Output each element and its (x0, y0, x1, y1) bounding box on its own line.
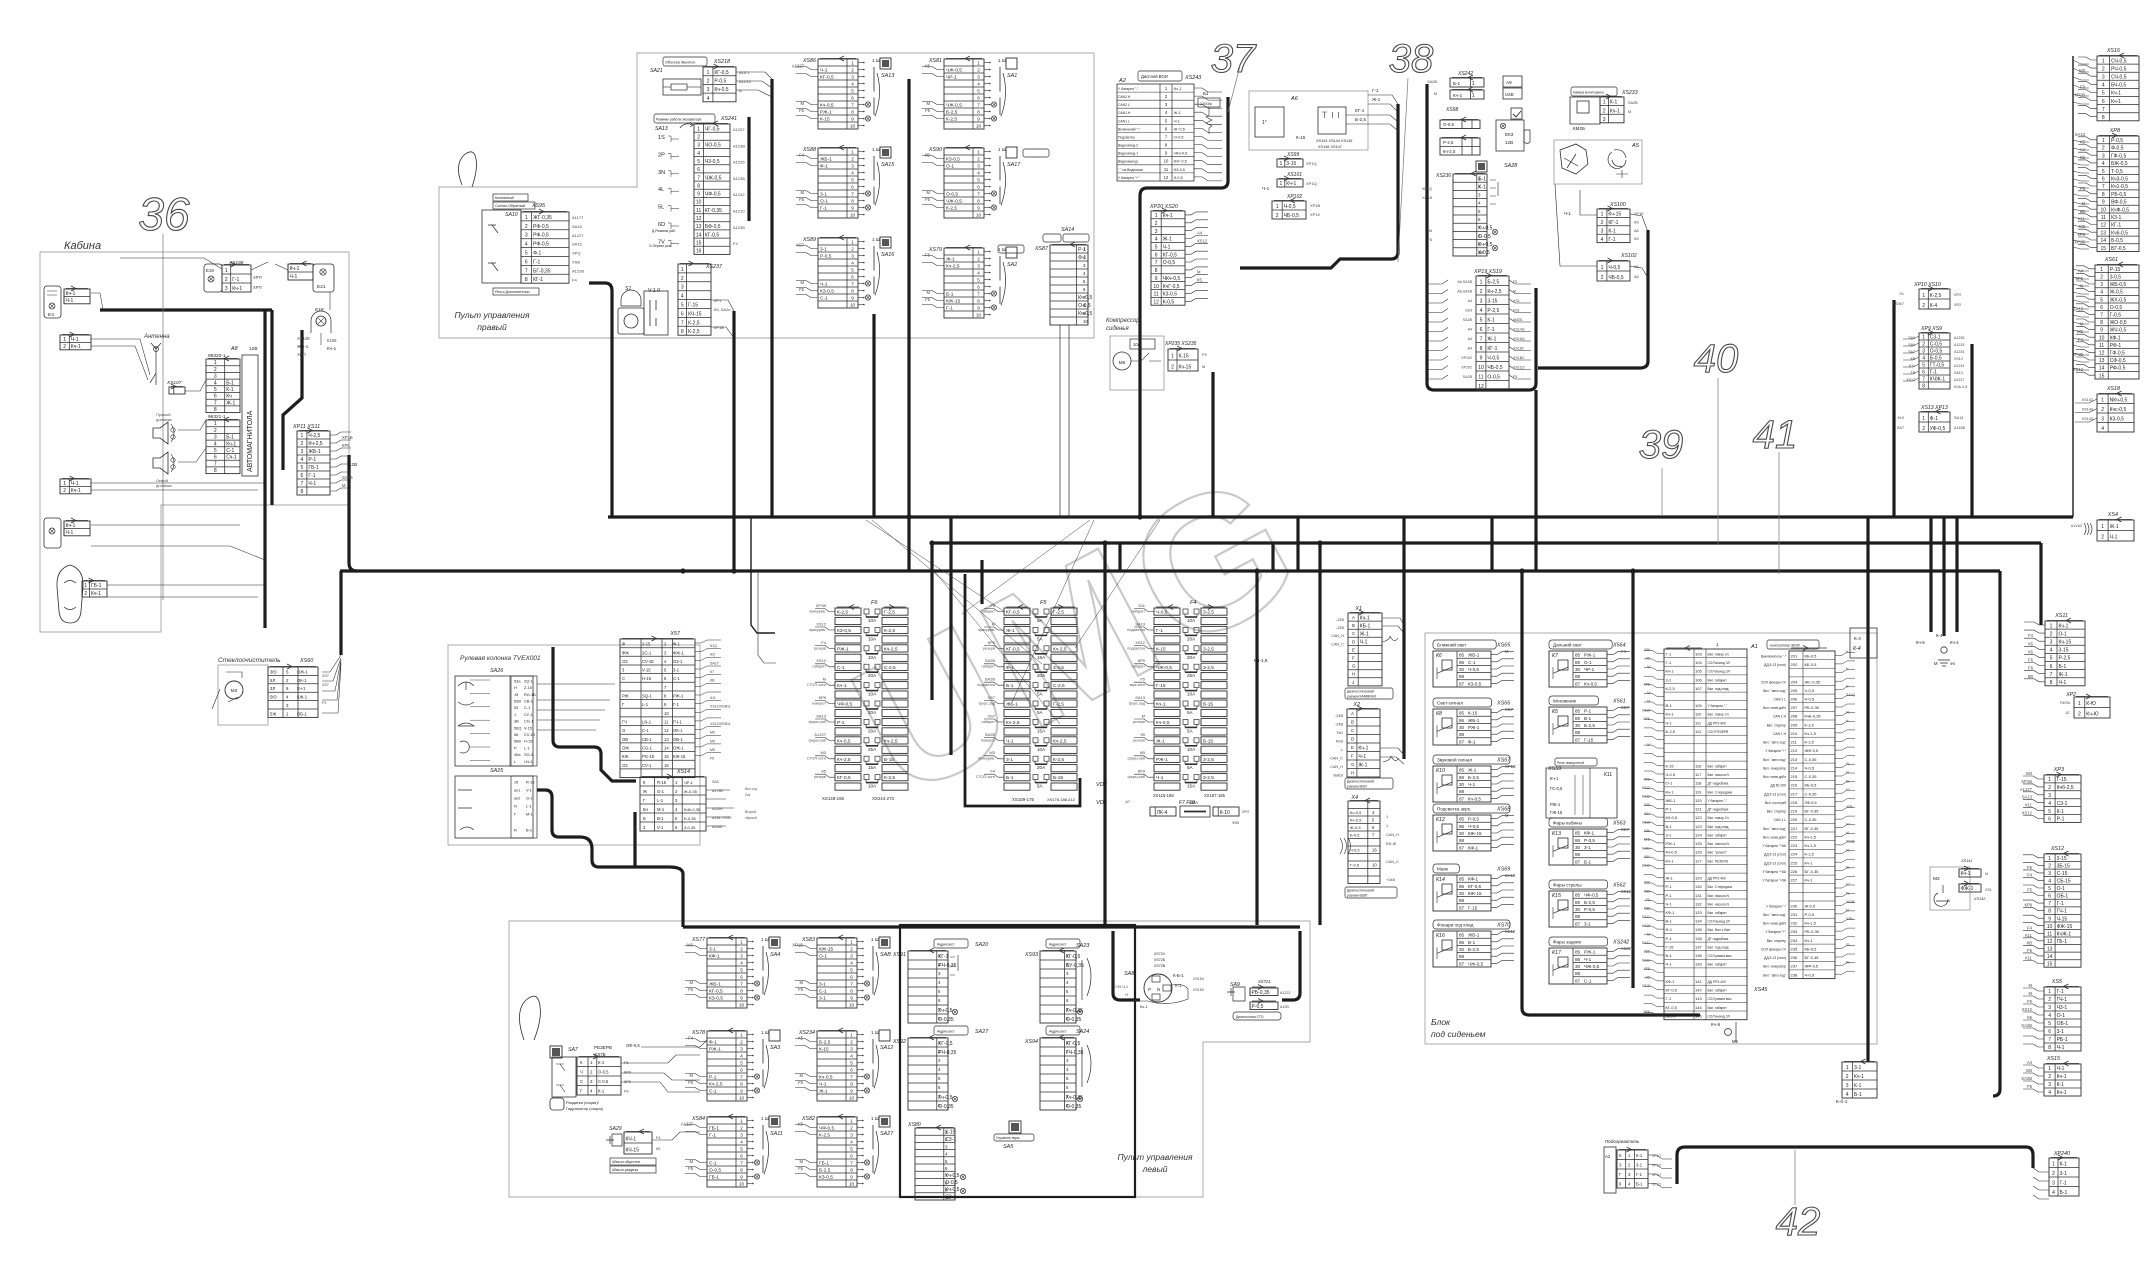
svg-text:1: 1 (740, 1119, 743, 1124)
svg-text:11: 11 (2101, 215, 2106, 221)
svg-text:1: 1 (2052, 1161, 2055, 1167)
relay К14 / connector ХS69 (1433, 864, 1459, 873)
svg-text:К5: К5 (2027, 1015, 2032, 1020)
svg-text:15: 15 (2047, 962, 2053, 968)
svg-text:214: 214 (1791, 766, 1798, 771)
svg-text:3-1: 3-1 (2057, 1029, 2064, 1035)
svg-text:Ж-1: Ж-1 (819, 1089, 828, 1095)
svg-text:чёрный: чёрный (745, 816, 757, 820)
svg-text:5: 5 (2048, 1021, 2051, 1027)
svg-text:К-Б-1: К-Б-1 (1173, 973, 1184, 978)
cab lower connector (62, 478, 89, 480)
svg-text:F5: F5 (688, 987, 694, 992)
svg-text:ХS242: ХS242 (1612, 940, 1629, 946)
svg-text:2: 2 (977, 257, 980, 262)
svg-text:3-2,5: 3-2,5 (1053, 665, 1064, 671)
svg-text:ХS6: ХS6 (1644, 950, 1650, 954)
svg-text:резерв: резерв (1133, 720, 1145, 724)
svg-text:Б-0,5: Б-0,5 (1350, 833, 1360, 838)
svg-text:Ч-1: Ч-1 (820, 68, 828, 74)
svg-text:К-15: К-15 (1156, 646, 1166, 652)
svg-text:F5: F5 (925, 108, 931, 113)
svg-text:Вкл. габарит: Вкл. габарит (1708, 989, 1728, 993)
svg-text:88: 88 (1459, 898, 1465, 903)
svg-text:БФ-Ж: БФ-Ж (1386, 842, 1397, 846)
svg-text:разъем ВШП: разъем ВШП (1347, 894, 1368, 898)
svg-text:КФ-1: КФ-1 (1666, 910, 1676, 915)
svg-text:М9: М9 (710, 731, 715, 735)
svg-text:12В: 12В (249, 346, 258, 352)
svg-text:К-0,5: К-0,5 (1174, 176, 1183, 180)
svg-text:ХS59: ХS59 (1547, 766, 1561, 772)
svg-text:3-1: 3-1 (1584, 845, 1591, 850)
svg-text:М: М (1846, 909, 1849, 913)
svg-text:ХS1б: ХS1б (1642, 984, 1650, 988)
svg-text:ГЧ-0,35: ГЧ-0,35 (1066, 1050, 1084, 1056)
svg-text:Кч-1: Кч-1 (1550, 776, 1559, 781)
svg-text:СОЛ выход 3Л: СОЛ выход 3Л (1708, 670, 1730, 674)
svg-text:А123В: А123В (733, 143, 745, 148)
svg-text:А1VА2: А1VА2 (2071, 524, 2082, 528)
svg-text:J5: J5 (514, 692, 518, 697)
svg-text:В-1: В-1 (1666, 703, 1673, 708)
svg-text:Ч-1: Ч-1 (1468, 782, 1476, 787)
svg-text:ХS101: ХS101 (1286, 172, 1302, 178)
svg-text:2: 2 (1155, 221, 1158, 227)
svg-text:1 Ш: 1 Ш (872, 58, 880, 63)
svg-text:Вкл. "реverс": Вкл. "реverс" (1708, 851, 1729, 855)
svg-text:Г-0,5: Г-0,5 (1350, 863, 1360, 868)
svg-text:F4: F4 (656, 1136, 660, 1140)
svg-text:8: 8 (740, 1168, 743, 1173)
svg-text:130: 130 (1695, 884, 1702, 889)
svg-text:10: 10 (739, 1182, 745, 1187)
svg-text:F4: F4 (821, 640, 826, 645)
svg-text:КЖ-15: КЖ-15 (946, 299, 960, 305)
svg-text:Б-15: Б-15 (1203, 738, 1213, 744)
svg-text:Вкл. невв доВт: Вкл. невв доВт (1763, 922, 1786, 926)
svg-text:ХРБ: ХРБ (1643, 777, 1650, 781)
svg-text:10: 10 (2047, 924, 2053, 930)
svg-text:6: 6 (1922, 370, 1925, 376)
svg-text:2: 2 (740, 947, 743, 952)
left panel feed (681, 874, 684, 927)
svg-text:М: М (927, 190, 931, 195)
svg-text:88: 88 (1575, 852, 1581, 857)
svg-text:фары раб: фары раб (1127, 757, 1145, 761)
svg-text:К-1: К-1 (226, 387, 234, 393)
svg-text:6: 6 (2048, 817, 2051, 823)
controller K-4 harness (1866, 517, 1869, 1062)
svg-text:8: 8 (301, 489, 304, 495)
svg-text:86: 86 (1459, 775, 1465, 780)
svg-text:резерв: резерв (814, 775, 826, 779)
svg-text:1: 1 (2100, 267, 2103, 273)
svg-text:ОК-1: ОК-1 (297, 678, 307, 683)
svg-text:Ч-1: Ч-1 (71, 337, 79, 343)
svg-text:F5: F5 (2027, 888, 2033, 893)
svg-text:КБ-0,5: КБ-0,5 (1805, 653, 1818, 658)
svg-text:F5: F5 (798, 1166, 804, 1171)
svg-text:J: J (514, 712, 516, 717)
svg-text:2: 2 (740, 1040, 743, 1045)
svg-text:А: А (1351, 711, 1354, 716)
relay К15 / connector Х562 (1549, 880, 1608, 889)
svg-text:Ж-1: Ж-1 (946, 257, 955, 263)
svg-text:САN_Н: САN_Н (1330, 765, 1343, 769)
svg-text:К5: К5 (798, 1121, 803, 1126)
svg-text:ХS176-188,212: ХS176-188,212 (1047, 797, 1076, 802)
svg-text:Г-1: Г-1 (1372, 88, 1379, 93)
svg-text:12: 12 (696, 216, 702, 222)
svg-text:КР9: КР9 (624, 1071, 631, 1075)
svg-text:3: 3 (850, 1133, 853, 1138)
svg-text:53В: 53В (514, 699, 521, 704)
svg-text:ХS12: ХS12 (2050, 846, 2064, 852)
svg-text:4: 4 (1601, 237, 1604, 243)
svg-text:10А: 10А (868, 655, 877, 660)
svg-text:1°: 1° (1262, 120, 1267, 126)
svg-text:88: 88 (1575, 674, 1581, 679)
svg-text:Ч-1: Ч-1 (819, 1082, 827, 1088)
svg-text:1 Ш: 1 Ш (871, 1030, 879, 1035)
svg-text:М: М (800, 980, 804, 985)
svg-text:1: 1 (850, 1033, 853, 1038)
svg-text:Б-1: Б-1 (1453, 81, 1461, 86)
svg-text:1: 1 (850, 1119, 853, 1124)
svg-text:ХS6: ХS6 (1644, 829, 1650, 833)
svg-text:ОВ: ОВ (622, 737, 628, 742)
svg-text:ХS68: ХS68 (1496, 807, 1510, 813)
svg-text:3-2,5: 3-2,5 (1203, 775, 1214, 781)
svg-text:Подсветка: Подсветка (1118, 136, 1135, 140)
svg-text:А1227: А1227 (681, 1121, 694, 1126)
svg-text:XS12: XS12 (816, 658, 827, 663)
svg-text:SG-1: SG-1 (524, 752, 533, 757)
svg-text:М3: М3 (2026, 1068, 2032, 1073)
svg-text:КQ: КQ (710, 653, 715, 657)
svg-text:4: 4 (681, 294, 684, 300)
svg-text:F5: F5 (1646, 657, 1650, 661)
svg-text:10: 10 (1478, 250, 1483, 255)
svg-text:С-0,35: С-0,35 (1805, 791, 1818, 796)
svg-text:ХР102: ХР102 (1461, 356, 1472, 360)
svg-text:К-15: К-15 (1468, 711, 1478, 716)
svg-text:СV-1: СV-1 (642, 763, 652, 768)
svg-text:ОЖ: ОЖ (622, 746, 629, 751)
svg-text:Б-0,35: Б-0,35 (684, 816, 697, 821)
svg-text:А4: А4 (2027, 1060, 2033, 1065)
svg-text:М: М (1647, 743, 1650, 747)
svg-text:ЧЖ-0,5: ЧЖ-0,5 (1156, 665, 1172, 671)
svg-text:88: 88 (1459, 732, 1465, 737)
svg-text:левый: левый (1142, 1164, 1168, 1174)
svg-text:К-1,5: К-1,5 (1805, 722, 1815, 727)
svg-text:В-1: В-1 (526, 828, 532, 833)
svg-text:Вкл. под клад: Вкл. под клад (1708, 687, 1729, 691)
svg-text:6: 6 (2102, 99, 2105, 105)
svg-text:КЖ-15: КЖ-15 (673, 754, 686, 759)
svg-text:ЖБ-1: ЖБ-1 (1468, 653, 1480, 658)
svg-text:2Q-1: 2Q-1 (524, 678, 533, 683)
svg-text:3: 3 (2102, 153, 2105, 159)
svg-text:Вкл. под клад: Вкл. под клад (1708, 946, 1729, 950)
wire drop to left panel (x=1105) (1103, 543, 1106, 925)
svg-text:К-2,5: К-2,5 (819, 1133, 830, 1139)
svg-text:А7: А7 (2066, 711, 2070, 715)
svg-text:SА2: SА2 (1007, 262, 1017, 268)
svg-text:М: М (1647, 933, 1650, 937)
svg-text:С-1: С-1 (709, 1089, 717, 1095)
svg-text:ЧБ-0,5: ЧБ-0,5 (1487, 365, 1502, 371)
svg-text:КГ-0,5: КГ-0,5 (837, 775, 851, 781)
svg-text:13: 13 (2101, 230, 2107, 236)
svg-text:ЕК3: ЕК3 (1505, 132, 1514, 137)
svg-text:Ж-0,35: Ж-0,35 (684, 789, 698, 794)
svg-text:К8: К8 (1436, 711, 1442, 717)
svg-text:ДД 5-13 (стол): ДД 5-13 (стол) (1764, 861, 1786, 865)
svg-text:САN2 L: САN2 L (1118, 103, 1130, 107)
svg-text:8: 8 (2048, 1045, 2051, 1051)
svg-text:8: 8 (2102, 115, 2105, 121)
svg-text:Б-1: Б-1 (2059, 664, 2067, 670)
svg-text:3: 3 (2048, 871, 2051, 877)
svg-text:3-0,5: 3-0,5 (2110, 275, 2122, 281)
svg-text:G: G (1351, 762, 1355, 767)
svg-text:1 Ш: 1 Ш (998, 58, 1006, 63)
svg-text:ХS14Q: ХS14Q (1513, 328, 1525, 332)
svg-text:СОЛ рампа выс: СОЛ рампа выс (1708, 997, 1733, 1001)
svg-text:Р: Р (1148, 987, 1151, 992)
svg-text:5: 5 (977, 178, 980, 183)
svg-text:9: 9 (697, 192, 700, 198)
svg-text:1: 1 (525, 215, 528, 221)
svg-text:S1: S1 (1899, 292, 1904, 296)
svg-text:Реж.и Дополнительн.: Реж.и Дополнительн. (495, 290, 530, 294)
svg-text:Кч-0,35: Кч-0,35 (1066, 1095, 1083, 1101)
svg-text:Ч-1: Ч-1 (1358, 754, 1366, 760)
svg-text:1 Ш: 1 Ш (998, 247, 1006, 252)
fuse group F5 (power box) (965, 574, 1080, 806)
svg-text:206: 206 (1791, 697, 1798, 702)
svg-text:КР1В: КР1В (714, 325, 724, 330)
svg-text:К3-0,5: К3-0,5 (1174, 168, 1185, 172)
svg-text:О-1: О-1 (1584, 660, 1592, 665)
svg-text:О-0,5: О-0,5 (1174, 136, 1184, 140)
svg-text:О-1: О-1 (820, 199, 828, 205)
svg-text:30: 30 (1575, 723, 1581, 728)
svg-text:БУ-0,35: БУ-0,35 (1066, 963, 1084, 969)
svg-text:Б-2,5: Б-2,5 (1468, 947, 1479, 952)
svg-text:217: 217 (1791, 791, 1798, 796)
svg-text:Б-2,5: Б-2,5 (1487, 279, 1499, 285)
svg-text:XS7: XS7 (1621, 705, 1630, 710)
svg-text:Абва.шт.раздатка: Абва.шт.раздатка (612, 1168, 638, 1172)
svg-text:С: С (1351, 728, 1354, 733)
svg-text:ХР1В: ХР1В (1422, 196, 1432, 200)
svg-text:Вкл. 2 передача: Вкл. 2 передача (1708, 790, 1733, 794)
svg-text:1: 1 (63, 481, 66, 487)
svg-text:2: 2 (851, 247, 854, 252)
svg-text:SА12: SА12 (1642, 915, 1650, 919)
svg-text:КБ-1: КБ-1 (1360, 623, 1371, 629)
svg-text:Вкл. габарит: Вкл. габарит (1708, 1006, 1728, 1010)
svg-text:2: 2 (1480, 289, 1483, 295)
svg-text:К12: К12 (1436, 817, 1445, 823)
svg-text:4: 4 (2048, 1090, 2051, 1096)
svg-text:ХS69: ХS69 (1496, 867, 1510, 873)
svg-text:6: 6 (2050, 664, 2053, 670)
svg-text:А6,SА2В: А6,SА2В (1457, 280, 1472, 284)
svg-text:Г-1: Г-1 (1930, 370, 1937, 376)
svg-text:ХР2: ХР2 (1954, 303, 1961, 307)
svg-text:10А: 10А (868, 692, 877, 697)
svg-text:1 Ш: 1 Ш (871, 937, 879, 942)
svg-text:Кнопанный: Кнопанный (495, 196, 514, 200)
svg-text:К3-0,5: К3-0,5 (2110, 416, 2125, 422)
svg-text:КГ-0,5: КГ-0,5 (1468, 884, 1482, 889)
svg-text:Кч3-0,5: Кч3-0,5 (2111, 177, 2128, 183)
svg-text:О-0,5: О-0,5 (1930, 349, 1943, 355)
svg-text:А4: А4 (1468, 328, 1472, 332)
svg-text:ХS80: ХS80 (907, 1122, 921, 1128)
svg-text:85: 85 (1459, 711, 1465, 716)
svg-text:4: 4 (214, 441, 217, 447)
svg-text:С-15: С-15 (2057, 871, 2068, 877)
svg-text:3-2,5: 3-2,5 (1203, 646, 1214, 652)
svg-text:112: 112 (1695, 729, 1702, 734)
svg-text:11: 11 (1153, 292, 1158, 298)
svg-text:56Q: 56Q (514, 725, 521, 730)
svg-text:Диагностический: Диагностический (1347, 780, 1374, 784)
svg-text:7: 7 (525, 268, 528, 274)
svg-text:Б-2,5: Б-2,5 (1584, 723, 1595, 728)
svg-text:8: 8 (740, 1082, 743, 1087)
svg-text:1: 1 (84, 583, 87, 589)
svg-text:КГ-0,5: КГ-0,5 (1163, 252, 1177, 258)
svg-text:SА15: SА15 (881, 162, 895, 168)
svg-text:Ч-1: Ч-1 (1262, 186, 1270, 191)
svg-text:Кч-1,5: Кч-1,5 (1805, 731, 1817, 736)
svg-text:КЗ-0,5: КЗ-0,5 (819, 1175, 833, 1181)
svg-text:20А: 20А (868, 710, 877, 715)
svg-text:КчЖ-1: КчЖ-1 (2057, 931, 2072, 937)
svg-text:208: 208 (1791, 714, 1798, 719)
svg-text:ЖБ-1: ЖБ-1 (1468, 718, 1480, 723)
svg-text:XS12: XS12 (1197, 238, 1208, 243)
svg-text:Ф-1: Ф-1 (820, 164, 828, 170)
svg-text:СОЛ выход 3Л: СОЛ выход 3Л (1708, 661, 1730, 665)
svg-text:F6/SА: F6/SА (2060, 701, 2071, 705)
svg-text:N: N (514, 804, 517, 809)
svg-text:8: 8 (1155, 268, 1158, 274)
svg-text:6: 6 (1155, 252, 1158, 258)
connector stub x=1492 (1490, 517, 1493, 571)
svg-text:А1260: А1260 (712, 825, 722, 829)
relay К13 / connector Х563 (1549, 818, 1608, 827)
svg-text:прикурив.: прикурив. (809, 628, 826, 632)
svg-text:А6: А6 (1634, 275, 1639, 279)
svg-text:41: 41 (1753, 413, 1798, 457)
svg-text:-24В: -24В (1336, 618, 1344, 622)
svg-text:11: 11 (1164, 167, 1169, 172)
svg-text:3: 3 (2102, 75, 2105, 81)
svg-text:2: 2 (2048, 863, 2051, 869)
svg-text:1S: 1S (658, 135, 665, 141)
svg-text:Кч-1: Кч-1 (1286, 181, 1296, 187)
svg-text:ЕК3: ЕК3 (1466, 309, 1473, 313)
svg-text:8: 8 (2100, 320, 2103, 326)
svg-text:3: 3 (2050, 640, 2053, 646)
svg-text:А1269: А1269 (712, 807, 722, 811)
svg-text:Г-2,5: Г-2,5 (1053, 610, 1064, 616)
svg-text:КГ-1: КГ-1 (1355, 108, 1365, 113)
svg-text:К-б-1: К-б-1 (1836, 1099, 1848, 1105)
svg-text:219: 219 (1791, 809, 1798, 814)
svg-text:КР9: КР9 (2077, 232, 2085, 237)
svg-text:3-2,5: 3-2,5 (1203, 757, 1214, 763)
svg-text:3-2,5: 3-2,5 (1203, 610, 1214, 616)
svg-text:СОЛ фонарь СV: СОЛ фонарь СV (1761, 680, 1787, 684)
svg-text:САN_С: САN_С (1331, 642, 1344, 646)
svg-text:звук.сигн: звук.сигн (1129, 683, 1145, 687)
svg-text:86: 86 (1459, 940, 1465, 945)
svg-text:Кч-0,5: Кч-0,5 (714, 87, 728, 93)
audio switch XS92/SA27b (934, 1026, 968, 1035)
svg-text:F1: F1 (1846, 848, 1850, 852)
svg-text:К-1: К-1 (2060, 1161, 2068, 1167)
svg-text:К5: К5 (1140, 732, 1145, 737)
SA8 harness (1113, 931, 1140, 1000)
svg-text:Ч-1: Ч-1 (1156, 775, 1164, 781)
svg-text:Г49 Ч-1: Г49 Ч-1 (1115, 985, 1128, 989)
svg-text:1: 1 (977, 150, 980, 155)
left panel connector wires (621, 1040, 707, 1140)
svg-text:М3: М3 (989, 750, 995, 755)
svg-text:NКч-0,5: NКч-0,5 (2110, 397, 2128, 403)
svg-text:РЧ-0,35: РЧ-0,35 (938, 1050, 956, 1056)
svg-text:16: 16 (664, 763, 669, 768)
svg-text:ЖЧ-0,5: ЖЧ-0,5 (2110, 328, 2127, 334)
svg-text:Кч-2,5: Кч-2,5 (884, 646, 898, 652)
svg-text:5Л: 5Л (270, 678, 275, 683)
svg-text:12: 12 (1478, 384, 1484, 390)
svg-text:1 Ш: 1 Ш (871, 1116, 879, 1121)
svg-text:30: 30 (1459, 891, 1465, 896)
svg-text:ОФ-0,5: ОФ-0,5 (626, 1043, 640, 1048)
svg-text:86: 86 (1575, 900, 1581, 905)
svg-text:КГ-0,5: КГ-0,5 (709, 989, 723, 995)
svg-text:СВ-1: СВ-1 (524, 699, 533, 704)
svg-text:118: 118 (1695, 781, 1702, 786)
svg-text:фары раб: фары раб (808, 738, 826, 742)
svg-text:О3: О3 (622, 763, 628, 768)
svg-text:габарит: габарит (981, 720, 995, 724)
svg-text:1: 1 (1280, 161, 1283, 167)
svg-text:М: М (800, 1159, 804, 1164)
svg-text:СФ-0,5: СФ-0,5 (2110, 358, 2126, 364)
svg-text:К3-1: К3-1 (2111, 215, 2121, 221)
gear lever icon (519, 996, 540, 1040)
svg-text:10: 10 (849, 1003, 855, 1008)
svg-text:138: 138 (1695, 953, 1702, 958)
svg-text:86: 86 (1459, 884, 1465, 889)
svg-text:XS218: XS218 (713, 59, 730, 65)
svg-text:ХS1: ХS1 (1985, 888, 1992, 892)
svg-text:4: 4 (1922, 356, 1925, 362)
svg-text:А173Б: А173Б (712, 789, 723, 793)
svg-text:2: 2 (1601, 275, 1604, 281)
